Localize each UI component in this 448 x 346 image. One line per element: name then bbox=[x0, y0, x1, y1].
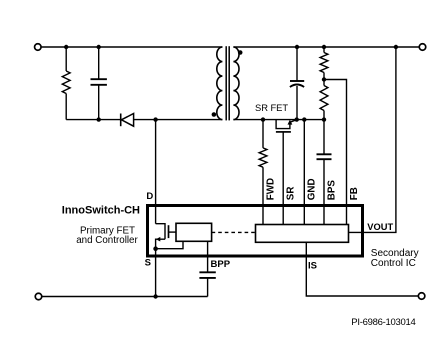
svg-text:S: S bbox=[145, 258, 151, 269]
svg-text:InnoSwitch-CH: InnoSwitch-CH bbox=[62, 205, 140, 217]
svg-text:BPP: BPP bbox=[211, 259, 231, 270]
wire primary return rail bbox=[42, 296, 208, 298]
wire top rail primary bbox=[41, 46, 222, 48]
wire communication link dashed bbox=[212, 231, 256, 233]
svg-text:IS: IS bbox=[308, 260, 317, 271]
output terminal top-right bbox=[419, 44, 426, 51]
output capacitor C2 polarized bbox=[290, 47, 304, 120]
capacitor BPP C4 bbox=[199, 272, 215, 296]
wire D pin line bbox=[155, 120, 157, 224]
node clamp resistor top bbox=[64, 45, 68, 49]
wire diode to primary bbox=[134, 119, 223, 121]
resistor divider lower R3 bbox=[320, 86, 328, 120]
wire SR gate line bbox=[282, 132, 284, 225]
svg-text:GND: GND bbox=[307, 178, 318, 200]
svg-text:BPS: BPS bbox=[326, 180, 337, 201]
node S to return bbox=[153, 294, 157, 298]
svg-text:Control IC: Control IC bbox=[371, 258, 416, 269]
wire S pin line bbox=[155, 249, 157, 297]
wire BPP pin line bbox=[207, 241, 209, 272]
transistor SR FET Q1 bbox=[276, 120, 297, 132]
node clamp capacitor top bbox=[97, 45, 101, 49]
svg-text:SR FET: SR FET bbox=[255, 102, 288, 113]
clamp capacitor C1 bbox=[91, 47, 107, 120]
wire GND pin line bbox=[303, 120, 305, 225]
transformer T1 primary winding bbox=[217, 47, 223, 120]
node VOUT rail bbox=[394, 45, 398, 49]
svg-text:SR: SR bbox=[286, 187, 297, 201]
wire clamp bottom bbox=[66, 119, 121, 121]
input terminal bottom-left bbox=[35, 293, 42, 300]
wire top rail secondary bbox=[233, 46, 419, 48]
svg-text:and Controller: and Controller bbox=[76, 235, 138, 246]
secondary controller box bbox=[256, 225, 349, 243]
svg-text:D: D bbox=[146, 191, 153, 202]
resistor divider upper R2 bbox=[320, 47, 328, 86]
transformer secondary phase dot bbox=[238, 50, 243, 55]
transformer T1 core bbox=[226, 46, 229, 120]
node output capacitor top bbox=[295, 45, 299, 49]
primary controller box bbox=[176, 223, 212, 241]
node FWD junction bbox=[261, 117, 265, 121]
transformer primary phase dot bbox=[212, 112, 217, 117]
transformer T1 secondary winding bbox=[233, 47, 239, 120]
svg-text:FB: FB bbox=[349, 187, 360, 200]
node feedback tap bbox=[322, 77, 326, 81]
svg-text:VOUT: VOUT bbox=[367, 222, 393, 232]
clamp diode D1 bbox=[121, 114, 134, 127]
resistor FWD R4 bbox=[259, 120, 267, 225]
wire FB tap to FB pin bbox=[324, 80, 347, 225]
transistor primary FET Q2 bbox=[156, 224, 176, 249]
wire VOUT sense bbox=[349, 47, 396, 232]
wire secondary return rail bbox=[233, 119, 324, 121]
node divider top bbox=[322, 45, 326, 49]
node SR FET drain to rail bbox=[295, 117, 299, 121]
clamp resistor R1 bbox=[62, 47, 70, 120]
node GND junction bbox=[302, 117, 306, 121]
node clamp capacitor bottom bbox=[97, 117, 101, 121]
wire IS pin line bbox=[306, 242, 418, 296]
output terminal bottom-right bbox=[418, 293, 425, 300]
node drain junction bbox=[153, 117, 157, 121]
wire source rail bbox=[156, 241, 183, 248]
IC outline InnoSwitch-CH U1 bbox=[148, 206, 363, 257]
input terminal top-left bbox=[35, 44, 42, 51]
node source bbox=[153, 246, 158, 251]
svg-text:PI-6986-103014: PI-6986-103014 bbox=[351, 317, 415, 328]
svg-text:Secondary: Secondary bbox=[371, 248, 419, 259]
node BPS junction bbox=[322, 117, 326, 121]
svg-text:FWD: FWD bbox=[265, 178, 276, 200]
capacitor BPS C3 bbox=[317, 120, 332, 225]
